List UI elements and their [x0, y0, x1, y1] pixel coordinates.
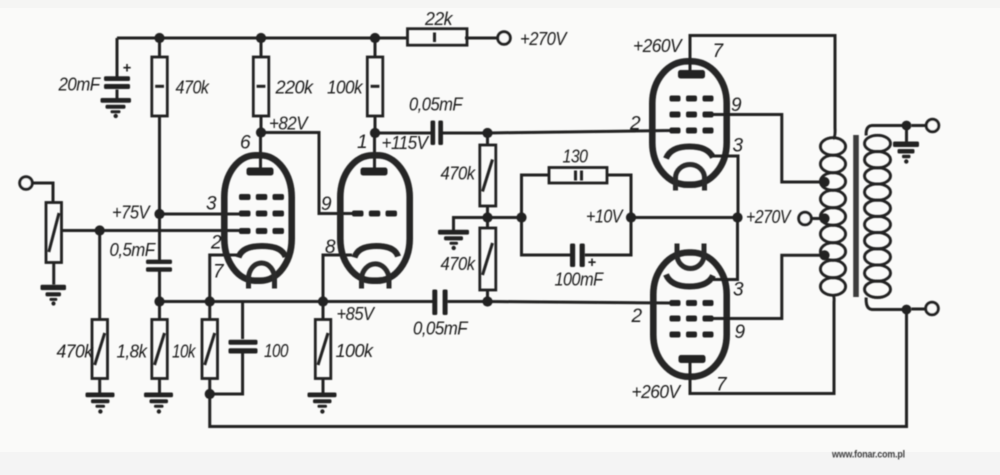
tube V1 plate bar [247, 168, 274, 176]
wire divider mid to ground [454, 218, 488, 231]
wire secondary bottom lead [866, 298, 906, 310]
svg-text:100: 100 [264, 341, 288, 361]
tube V2 cathode arc [355, 246, 399, 258]
resistor 470k (grid leak) [92, 320, 108, 379]
svg-text:20mF: 20mF [58, 75, 101, 95]
wire V2 pin 8 cathode lead [323, 255, 352, 302]
svg-text:3: 3 [206, 194, 217, 215]
wire divider mid to 130/100mF left node [488, 216, 522, 219]
svg-text:7: 7 [213, 262, 225, 283]
wire V1 pin 7 cathode lead [210, 255, 237, 302]
svg-text:9: 9 [321, 194, 332, 215]
svg-text:7: 7 [713, 41, 725, 62]
svg-text:+10V: +10V [586, 207, 624, 227]
tube V4 heater dome (top) [677, 244, 704, 269]
tube V4 plate bar [679, 355, 706, 363]
wire V4 plate to transformer primary bottom [690, 296, 834, 394]
wire potentiometer to ground [52, 263, 55, 285]
svg-text:2: 2 [631, 306, 643, 327]
node primary centre tap [819, 213, 829, 223]
tube V2 envelope [340, 155, 409, 280]
wire +82V to pin 9 of V2 [261, 133, 353, 214]
tube V1 envelope [224, 155, 291, 280]
node pin 1 (+115V) [370, 128, 380, 138]
tube V3 envelope [652, 61, 726, 184]
ground (470k grid leak) [86, 393, 115, 414]
svg-text:+260V: +260V [632, 382, 682, 402]
svg-text:470k: 470k [441, 164, 476, 184]
svg-text:6: 6 [240, 133, 251, 154]
wire V3 pin 3 cathode down [713, 156, 738, 218]
resistor 100k (top) [367, 57, 383, 116]
wire node1 to C 0,05mF [375, 132, 431, 135]
transformer T1 primary winding [820, 138, 845, 296]
node top rail / 470k [154, 33, 164, 43]
resistor 1,8k [152, 320, 168, 379]
node 10k bottom [205, 389, 215, 399]
ground (divider) [438, 230, 469, 250]
svg-text:+75V: +75V [112, 203, 151, 223]
svg-text:+: + [123, 61, 132, 77]
resistor 470k (divider upper) [480, 145, 496, 206]
capacitor 0,5mF leads [158, 214, 161, 302]
svg-text:+85V: +85V [337, 304, 376, 324]
svg-text:9: 9 [731, 95, 742, 116]
svg-text:470k: 470k [441, 254, 476, 274]
tube V4 envelope [653, 253, 726, 377]
svg-text:130: 130 [563, 147, 588, 167]
node pin8 / 100k [318, 296, 328, 306]
resistor 470k (upper left) [152, 57, 168, 116]
svg-text:+82V: +82V [269, 114, 309, 134]
node primary tap A [819, 177, 829, 187]
resistor 470k (divider upper) leads [486, 133, 489, 218]
tube V1 heater dome [249, 263, 275, 289]
resistor 470k (grid leak) leads [98, 231, 101, 393]
wire to V3 pin 2 [488, 131, 672, 134]
tube V2 grid dashes [352, 211, 397, 217]
transformer T1 secondary winding [865, 135, 891, 297]
wire C 0,05mF to node [443, 132, 488, 135]
wire V4 pin 9 to primary tap B [713, 255, 825, 318]
tube V1 cathode arc [239, 246, 286, 258]
node coupling / 470k divider top [482, 128, 492, 138]
wire secondary node to ground [905, 126, 908, 142]
wire +10V to cathodes junction [631, 216, 738, 219]
terminal +270V (mid) [799, 212, 812, 225]
svg-text:3: 3 [733, 136, 744, 157]
wire 0,05mF lower to node [448, 300, 488, 303]
wire input terminal to potentiometer [32, 183, 53, 203]
terminal +270V (top) [498, 32, 511, 45]
svg-text:2: 2 [629, 114, 641, 135]
node secondary bottom [902, 305, 912, 315]
wire top supply rail [117, 37, 409, 40]
svg-text:+270V: +270V [520, 29, 568, 49]
node top rail / 100k [370, 33, 380, 43]
capacitor 20mF [104, 76, 130, 89]
resistor 10k leads [208, 302, 211, 395]
terminal input [20, 177, 33, 190]
node output cathodes junction [732, 212, 742, 222]
svg-text:0,05mF: 0,05mF [413, 319, 468, 339]
svg-text:10k: 10k [172, 342, 196, 362]
svg-text:0,05mF: 0,05mF [409, 95, 463, 115]
wire V3 pin 9 to primary tap A [712, 115, 825, 183]
svg-text:+270V: +270V [746, 207, 792, 227]
wire V3 plate to transformer primary top [690, 36, 835, 139]
ground (secondary) [893, 142, 919, 164]
wire secondary top lead [866, 126, 906, 136]
tube V3 cathode arc [666, 147, 713, 159]
node +75V [154, 209, 164, 219]
svg-text:1,8k: 1,8k [117, 342, 148, 362]
resistor 220k [253, 57, 268, 116]
svg-text:2: 2 [210, 233, 222, 254]
potentiometer input [46, 203, 62, 263]
wire to V4 pin 2 [488, 302, 672, 304]
svg-text:3: 3 [733, 280, 744, 301]
node top rail / 220k [256, 33, 266, 43]
resistor 470k (divider lower) [480, 228, 496, 290]
svg-text:22k: 22k [424, 9, 454, 29]
resistor 130 [549, 168, 607, 184]
node pin 6 (+82V) [256, 127, 266, 137]
node +10V [626, 212, 636, 222]
svg-text:9: 9 [735, 322, 746, 343]
wire secondary top node to terminal [911, 124, 926, 127]
node 0,5mF / 1,8k [154, 296, 164, 306]
terminal output bottom [926, 302, 939, 315]
svg-text:100k: 100k [327, 78, 363, 98]
capacitor 100 [229, 340, 258, 354]
node secondary top [902, 121, 912, 131]
wire input to V1 pin 2 [62, 229, 243, 232]
resistor 1,8k leads [158, 302, 161, 393]
node pin7 / 10k [205, 296, 215, 306]
svg-text:0,5mF: 0,5mF [110, 240, 156, 260]
resistor 100k (top) leads [374, 38, 377, 133]
resistor 220k leads [260, 38, 263, 133]
resistor 100k (cathode V2) leads [322, 302, 325, 393]
tube V2 heater dome [362, 264, 390, 289]
capacitor 0,05mF (lower) [432, 290, 447, 316]
capacitor 0,05mF (upper) [431, 121, 444, 146]
wire bottom return rail [210, 310, 907, 427]
capacitor 0,5mF [146, 260, 172, 272]
ground (below 20mF) [101, 98, 132, 118]
svg-text:+260V: +260V [633, 36, 683, 56]
svg-text:1: 1 [357, 132, 368, 153]
wire 10k bottom to capacitor 100 [210, 302, 243, 395]
capacitor 20mF leads [116, 38, 119, 98]
wire 130/100mF loop right [585, 175, 631, 255]
node input / 470k grid leak [95, 225, 105, 235]
tube V3 grid dashes [670, 96, 714, 134]
wire cathode bus (y=301.5) [160, 300, 433, 303]
tube V3 plate bar [678, 70, 705, 79]
wire 130/100mF loop left [522, 175, 571, 255]
svg-text:470k: 470k [57, 342, 95, 362]
resistor 470k (divider lower) leads [486, 218, 489, 302]
node divider mid [482, 212, 492, 222]
tube V2 plate bar [361, 168, 388, 176]
ground (input) [41, 285, 67, 306]
terminal output top [926, 119, 939, 132]
resistor 100k (cathode V2) [315, 320, 331, 379]
svg-text:100k: 100k [336, 341, 375, 361]
wire V2 plate lead [373, 133, 376, 168]
svg-text:8: 8 [325, 237, 336, 258]
wire +270V terminal to primary centre tap [811, 217, 824, 220]
svg-text:100mF: 100mF [555, 270, 604, 290]
tube V4 cathode arc [666, 275, 713, 287]
svg-text:220k: 220k [274, 78, 314, 98]
node divider bottom [482, 296, 492, 306]
capacitor 100mF [570, 244, 585, 268]
transformer T1 core [853, 135, 859, 297]
node 130/100mF left [516, 212, 526, 222]
wire +75V to V1 pin 3 [160, 213, 243, 216]
resistor 10k [202, 320, 218, 379]
tube V1 grid dashes [239, 194, 284, 234]
node primary tap B [819, 250, 829, 260]
svg-text:470k: 470k [176, 78, 210, 98]
ground (100k) [308, 393, 337, 414]
resistor 470k (upper left) leads [158, 38, 161, 214]
resistor 22k [408, 29, 468, 46]
wire V1 plate lead [259, 133, 262, 169]
wire V4 pin 3 cathode up [713, 218, 738, 280]
ground (1,8k) [144, 393, 173, 414]
wire secondary bottom node to terminal [911, 308, 925, 311]
wire 22k to +270V terminal [465, 37, 498, 40]
tube V4 grid dashes [670, 300, 714, 338]
svg-text:+115V: +115V [382, 133, 430, 153]
tube V3 heater dome [676, 165, 705, 191]
